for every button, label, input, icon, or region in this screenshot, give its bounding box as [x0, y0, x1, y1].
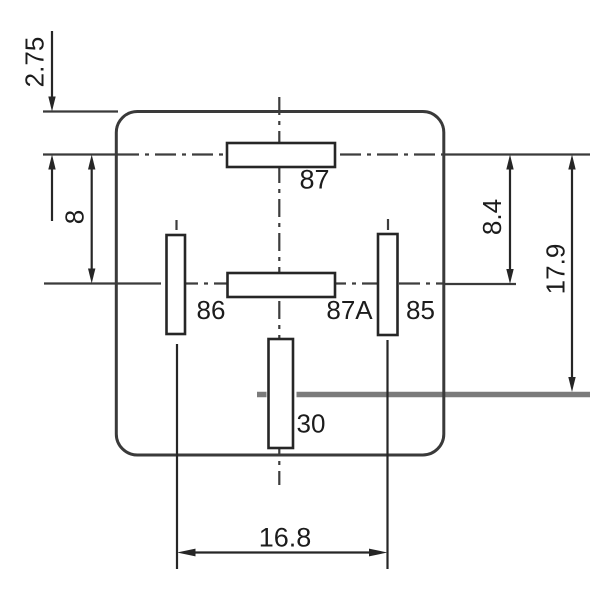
pin 85 (right vertical blade)	[378, 234, 398, 335]
dimension 8.4 (right inner)	[506, 155, 513, 285]
tick centerline above pin 85	[387, 219, 389, 230]
svg-text:30: 30	[297, 409, 326, 439]
tick centerline above pin 86	[175, 220, 177, 230]
extension line row2 left	[44, 282, 140, 284]
pin 30 (bottom vertical blade)	[269, 339, 294, 448]
mounting surface (thick gray line)	[257, 392, 267, 398]
relay body outline (rounded square)	[116, 112, 444, 456]
svg-text:8.4: 8.4	[477, 199, 507, 235]
centerline row 87 (horizontal dash-dot through pin 87)	[118, 153, 444, 155]
svg-text:2.75: 2.75	[20, 37, 50, 88]
extension line below pin 86 (16.8 left)	[176, 344, 178, 569]
pin 87A (center horizontal blade)	[228, 273, 336, 297]
svg-text:16.8: 16.8	[259, 523, 312, 553]
extension line row 87 left	[43, 153, 118, 155]
svg-text:8: 8	[60, 210, 90, 224]
vertical centerline through 87/87A/30 (dash-dot)	[278, 97, 280, 485]
svg-text:86: 86	[197, 295, 226, 325]
dimension 8 (left, arrows both ends)	[88, 155, 95, 284]
svg-text:87A: 87A	[326, 295, 373, 325]
dimension 17.9 (right outer)	[568, 155, 575, 393]
centerline row 86-87A-85 (horizontal dash-dot)	[140, 282, 444, 284]
extension line row 87 right	[444, 153, 590, 155]
extension line row2 right (for 8.4)	[444, 283, 516, 285]
dimension 2.75 (upper arrow line)	[48, 31, 55, 221]
extension line below pin 85 (16.8 right)	[386, 340, 388, 569]
pin 87 (top horizontal blade)	[227, 143, 335, 167]
extension line of body top edge (left)	[43, 110, 118, 112]
svg-text:17.9: 17.9	[541, 244, 571, 295]
svg-text:87: 87	[299, 165, 329, 195]
svg-text:85: 85	[406, 295, 435, 325]
dimension 16.8 (bottom, arrows both ends)	[177, 549, 388, 557]
pin 86 (left vertical blade)	[167, 235, 186, 334]
